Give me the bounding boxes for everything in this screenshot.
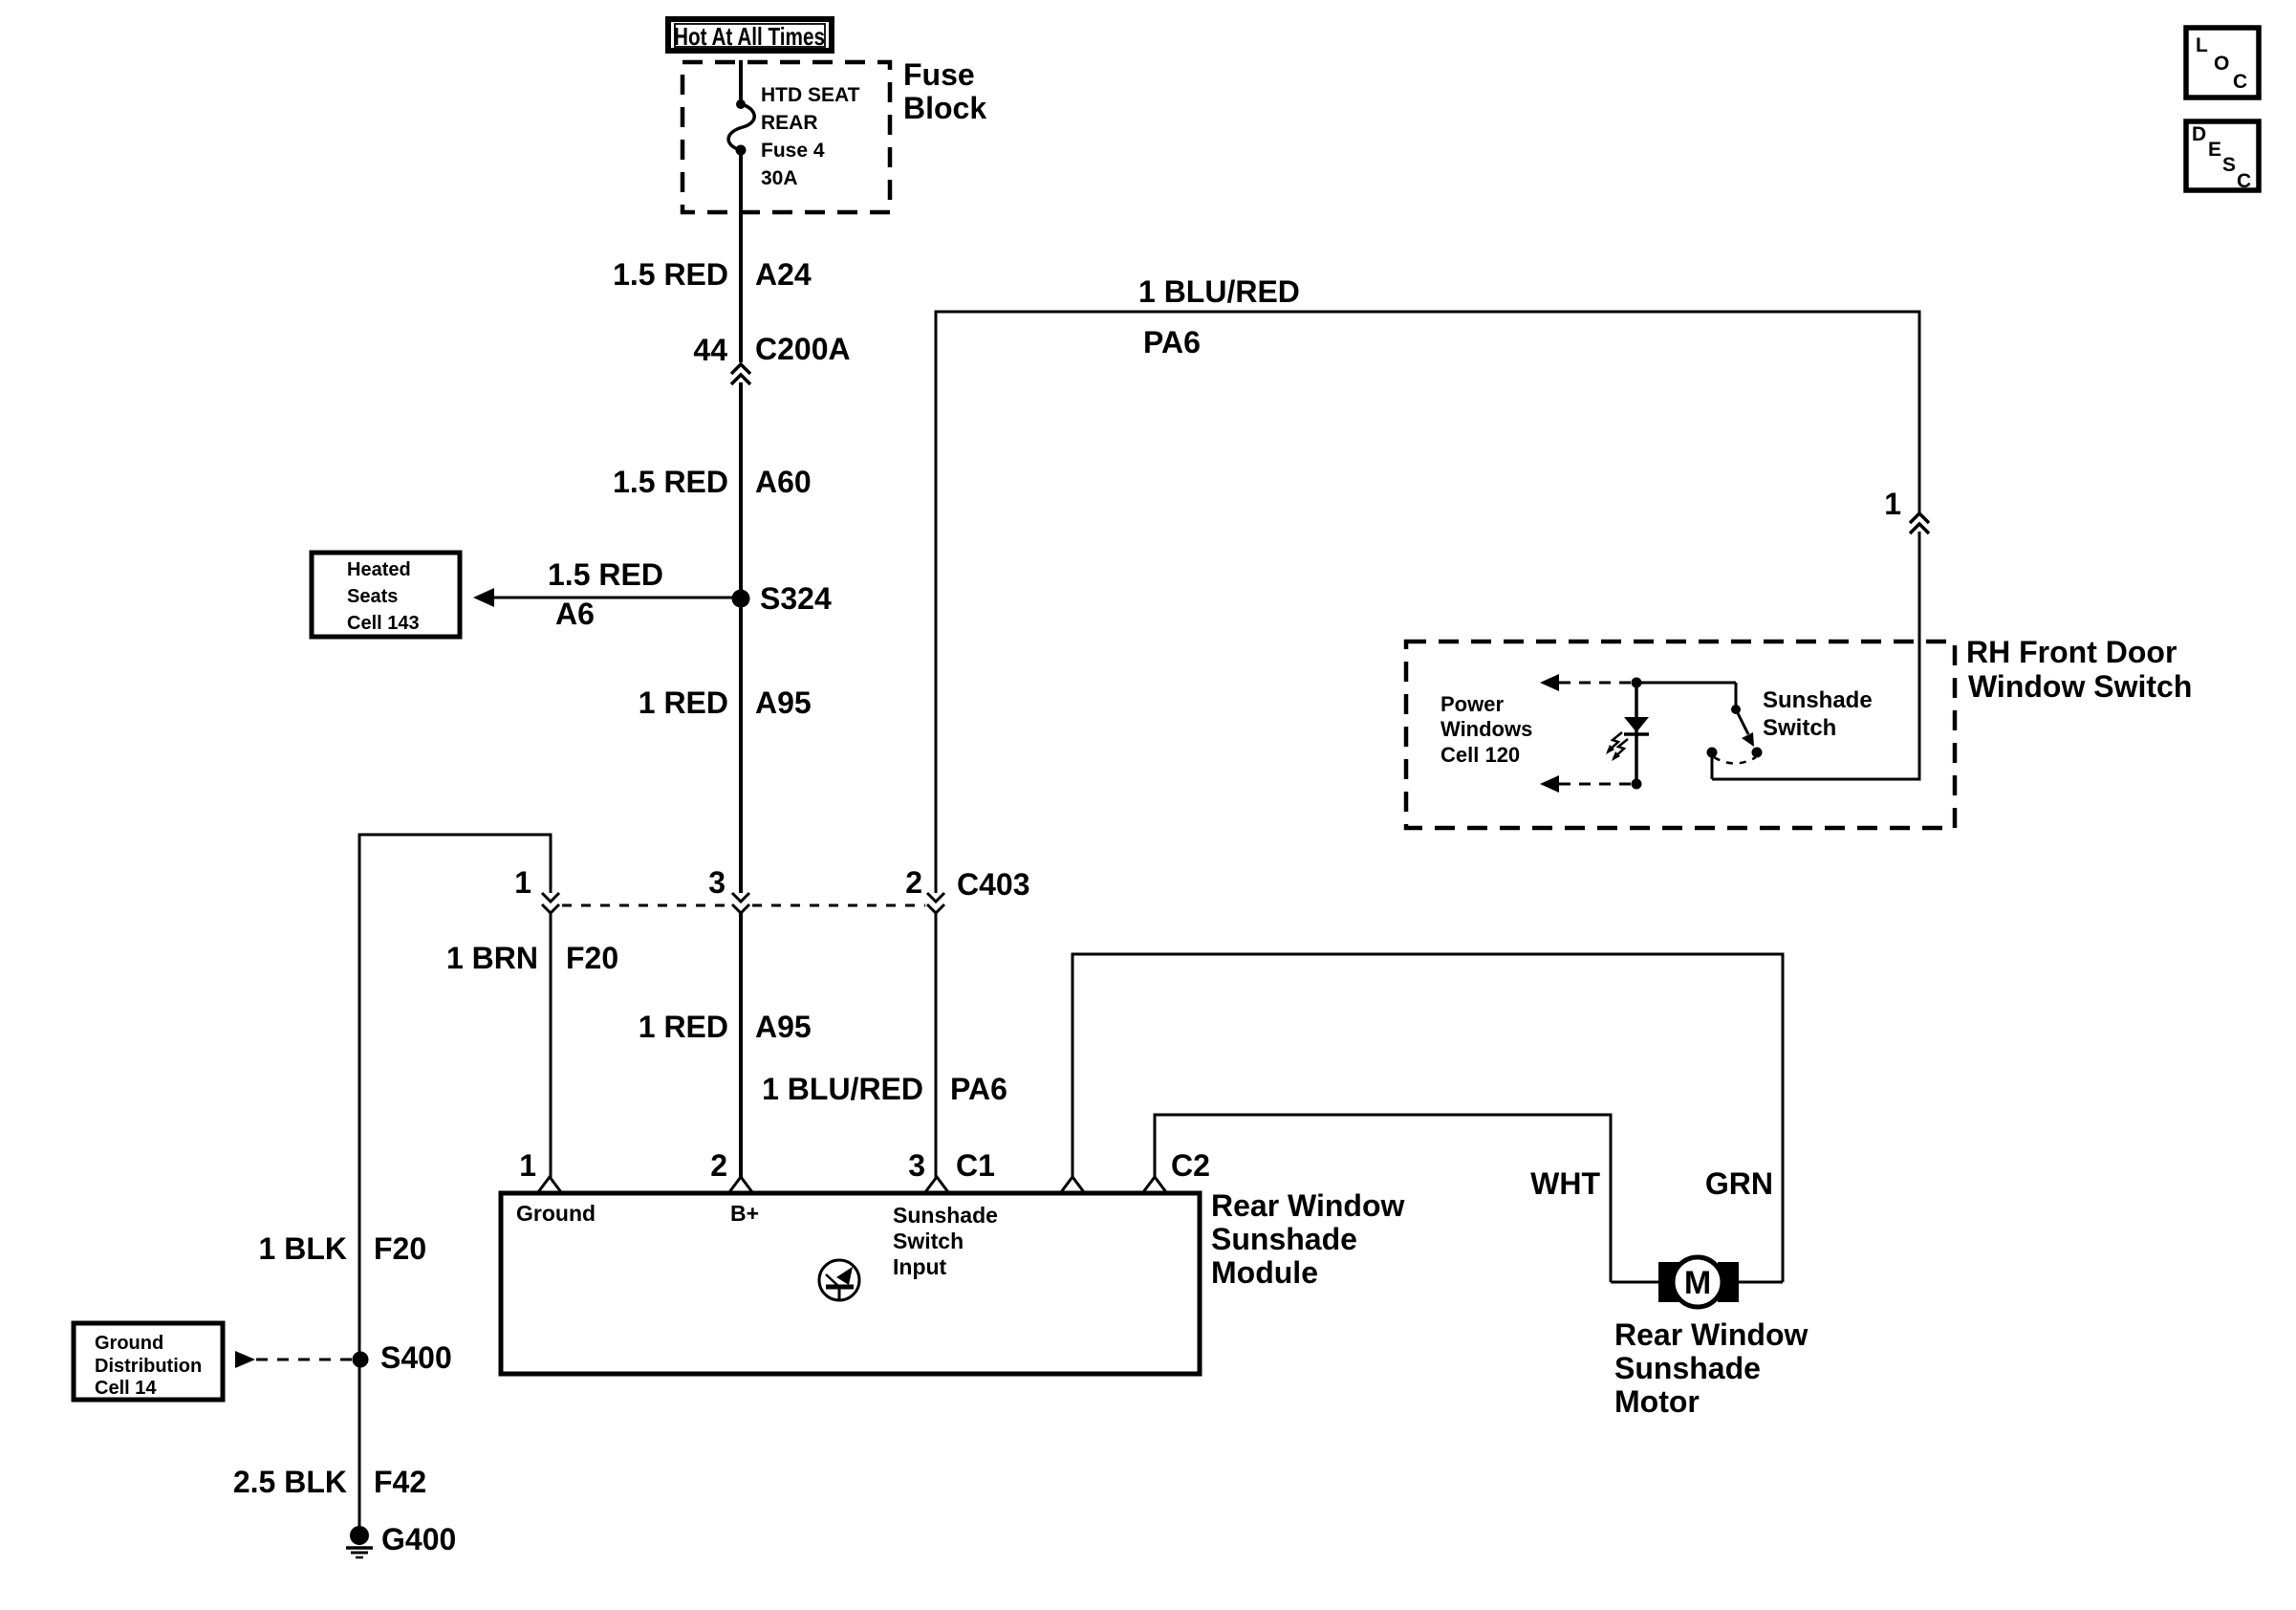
- svg-text:A24: A24: [755, 257, 812, 292]
- svg-text:1 BLU/RED: 1 BLU/RED: [1138, 274, 1300, 309]
- connector C403 pin 2: [927, 893, 944, 913]
- wire: left ground leg (F20 / F42): [358, 834, 361, 1537]
- wire F20: C403 pin 1 to module pin 1: [550, 913, 552, 1178]
- svg-text:Fuse: Fuse: [903, 57, 975, 92]
- svg-text:Sunshade: Sunshade: [1211, 1222, 1357, 1256]
- label 44 C200A: [693, 332, 850, 367]
- label 1.5 RED / A6: [548, 557, 663, 631]
- label 1.5 RED A24: [613, 257, 812, 292]
- svg-text:Heated: Heated: [347, 559, 411, 580]
- svg-text:GRN: GRN: [1705, 1166, 1773, 1201]
- ground G400: [346, 1526, 373, 1557]
- svg-text:1: 1: [514, 865, 531, 900]
- junction dot (LED bottom): [1632, 779, 1642, 790]
- svg-text:Cell 143: Cell 143: [347, 613, 420, 634]
- svg-text:S: S: [2222, 154, 2236, 176]
- module pin labels 1 2 3 C1 C2: [519, 1148, 1210, 1183]
- svg-text:Block: Block: [903, 91, 986, 125]
- wire F20 branch: top corner: [358, 834, 552, 894]
- svg-text:Rear Window: Rear Window: [1211, 1188, 1405, 1223]
- label Rear Window Sunshade Motor: [1614, 1317, 1809, 1419]
- wire A95: C403 pin 3 to module pin 2: [739, 913, 743, 1178]
- svg-text:Sunshade: Sunshade: [1614, 1351, 1761, 1385]
- module pin 2 chevron: [729, 1177, 752, 1192]
- fuse value text HTD SEAT REAR Fuse 4 30A: [761, 84, 860, 189]
- svg-text:30A: 30A: [761, 167, 798, 189]
- svg-text:1.5 RED: 1.5 RED: [613, 465, 728, 499]
- dashed arrow to power windows (bottom): [1540, 775, 1631, 793]
- svg-text:1.5 RED: 1.5 RED: [613, 257, 728, 292]
- svg-text:Motor: Motor: [1614, 1384, 1700, 1419]
- LED light arrows: [1606, 732, 1628, 761]
- label Rear Window Sunshade Module: [1211, 1188, 1405, 1290]
- label 1.5 RED A60: [613, 465, 812, 499]
- svg-text:2.5 BLK: 2.5 BLK: [233, 1465, 347, 1499]
- label 2.5 BLK F42: [233, 1465, 426, 1499]
- svg-text:1: 1: [519, 1148, 536, 1183]
- module pin 5 chevron: [1143, 1177, 1166, 1192]
- svg-text:RH Front Door: RH Front Door: [1966, 635, 2177, 669]
- box Ground Distribution Cell 14: [74, 1323, 223, 1400]
- svg-text:Sunshade: Sunshade: [1763, 687, 1873, 713]
- wire: hot feed into fuse block: [739, 60, 743, 104]
- svg-text:G400: G400: [381, 1522, 456, 1556]
- svg-text:S400: S400: [380, 1340, 452, 1375]
- module sunshade icon: [819, 1260, 859, 1300]
- svg-text:Ground: Ground: [516, 1201, 596, 1226]
- label Power Windows Cell 120: [1440, 692, 1532, 767]
- svg-text:44: 44: [693, 333, 727, 367]
- wire: connector into switch box down to bottom run: [1712, 532, 1921, 779]
- label 1 RED A95 (lower): [639, 1010, 812, 1044]
- svg-text:PA6: PA6: [950, 1072, 1007, 1106]
- svg-text:1: 1: [1884, 487, 1901, 521]
- svg-text:Fuse 4: Fuse 4: [761, 140, 825, 162]
- svg-text:D: D: [2192, 123, 2206, 145]
- label 1 BLK F20: [259, 1231, 427, 1266]
- label 1 BRN F20: [446, 941, 618, 975]
- wire PA6: C403 pin 2 to module pin 3: [935, 913, 938, 1178]
- wire GRN: module pin 4 to motor: [1072, 954, 1785, 1282]
- svg-text:Windows: Windows: [1440, 717, 1532, 741]
- label G400: [381, 1522, 456, 1556]
- svg-text:C: C: [2233, 71, 2247, 93]
- svg-text:O: O: [2214, 53, 2229, 75]
- label Sunshade Switch: [1763, 687, 1873, 741]
- dashed arrow to power windows (top): [1540, 674, 1631, 691]
- connector C200A (double chevron): [731, 364, 750, 384]
- svg-text:A60: A60: [755, 465, 812, 499]
- motor M (rear window sunshade motor): [1658, 1257, 1739, 1307]
- svg-text:E: E: [2208, 139, 2221, 161]
- svg-text:F20: F20: [374, 1231, 426, 1266]
- fuse HTD SEAT REAR Fuse 4 (30A): [728, 99, 754, 156]
- svg-text:F20: F20: [566, 941, 618, 975]
- module pin 4 chevron: [1061, 1177, 1084, 1192]
- svg-text:Rear Window: Rear Window: [1614, 1317, 1809, 1352]
- svg-text:3: 3: [908, 1148, 925, 1183]
- label 1 RED A95 (upper): [639, 685, 812, 720]
- svg-text:M: M: [1684, 1265, 1711, 1301]
- svg-text:1 RED: 1 RED: [639, 1010, 728, 1044]
- svg-text:B+: B+: [730, 1201, 759, 1226]
- svg-text:Seats: Seats: [347, 586, 398, 607]
- svg-text:Window Switch: Window Switch: [1968, 669, 2192, 704]
- wire PA6: top run from C403 pin 2 to window switch drop: [935, 312, 1921, 893]
- svg-text:C: C: [2237, 170, 2251, 192]
- module internal pin names: [516, 1201, 998, 1279]
- svg-text:PA6: PA6: [1143, 325, 1201, 359]
- label 1 BLU/RED PA6 (lower): [762, 1072, 1007, 1106]
- svg-text:A6: A6: [555, 597, 595, 631]
- wire A6 with arrow to Heated Seats: [473, 588, 741, 607]
- wire: right drop to window switch connector: [1918, 312, 1921, 514]
- svg-text:S324: S324: [760, 581, 832, 616]
- svg-text:F42: F42: [374, 1465, 426, 1499]
- label WHT: [1530, 1166, 1600, 1201]
- module pin 1 chevron: [538, 1177, 561, 1192]
- svg-text:WHT: WHT: [1530, 1166, 1600, 1201]
- svg-text:1 RED: 1 RED: [639, 685, 728, 720]
- label RH Front Door Window Switch: [1966, 635, 2192, 704]
- connector C403 pin 3: [732, 893, 749, 913]
- svg-text:C200A: C200A: [755, 332, 851, 366]
- svg-text:L: L: [2196, 34, 2208, 56]
- box Heated Seats Cell 143: [312, 553, 460, 637]
- dashed connector line C403: [562, 904, 925, 907]
- svg-text:Cell 14: Cell 14: [95, 1378, 157, 1399]
- svg-text:REAR: REAR: [761, 112, 818, 134]
- svg-text:C1: C1: [956, 1148, 995, 1183]
- label GRN: [1705, 1166, 1773, 1201]
- svg-text:C2: C2: [1171, 1148, 1210, 1183]
- wire WHT: module pin 5 (C2) to motor: [1154, 1115, 1660, 1282]
- svg-text:1.5 RED: 1.5 RED: [548, 557, 663, 592]
- svg-text:A95: A95: [755, 1010, 812, 1044]
- svg-text:1 BRN: 1 BRN: [446, 941, 538, 975]
- svg-text:Switch: Switch: [893, 1229, 964, 1253]
- label 1 BLU/RED / PA6 (top run): [1138, 274, 1300, 359]
- LED indicator diode: [1624, 683, 1649, 784]
- svg-text:1 BLU/RED: 1 BLU/RED: [762, 1072, 923, 1106]
- svg-text:A95: A95: [755, 685, 812, 720]
- svg-text:Input: Input: [893, 1254, 947, 1279]
- splice S400: [353, 1352, 369, 1368]
- connector C403 pin 1: [542, 893, 559, 913]
- label S324: [760, 581, 832, 616]
- svg-text:3: 3: [708, 865, 726, 900]
- label S400: [380, 1340, 452, 1375]
- wire A24: fuse to connector C200A: [739, 150, 743, 362]
- svg-text:Cell 120: Cell 120: [1440, 743, 1520, 767]
- fuse block box (dashed): [682, 62, 890, 212]
- label pin 1 (window switch connector): [1884, 487, 1901, 521]
- svg-text:C403: C403: [957, 867, 1030, 902]
- svg-text:Module: Module: [1211, 1255, 1318, 1290]
- svg-text:Power: Power: [1440, 692, 1504, 716]
- svg-text:2: 2: [905, 865, 922, 900]
- svg-text:Distribution: Distribution: [95, 1356, 202, 1377]
- DESC reference box: [2186, 121, 2259, 192]
- junction dot (LED top): [1632, 678, 1642, 688]
- RH front door window switch box (dashed): [1406, 642, 1955, 828]
- wire A60: C200A to splice S324: [739, 382, 743, 598]
- rear window sunshade module box: [501, 1193, 1200, 1374]
- label box "Hot At All Times": [668, 19, 832, 51]
- wire A95: S324 to connector C403 pin 3: [739, 598, 743, 893]
- label "Fuse Block": [903, 57, 986, 125]
- sunshade switch contacts and arm: [1636, 683, 1763, 764]
- svg-text:Ground: Ground: [95, 1333, 163, 1354]
- svg-text:Switch: Switch: [1763, 715, 1836, 741]
- dashed wire with arrow to ground distribution: [235, 1351, 352, 1368]
- labels C403 row: [514, 865, 1029, 902]
- svg-text:Hot At All Times: Hot At All Times: [674, 22, 825, 51]
- splice S324: [732, 590, 750, 608]
- connector pin 1 (double chevron): [1910, 513, 1929, 533]
- svg-text:HTD SEAT: HTD SEAT: [761, 84, 860, 106]
- svg-text:1 BLK: 1 BLK: [259, 1231, 347, 1266]
- module pin 3 chevron: [925, 1177, 948, 1192]
- svg-text:2: 2: [710, 1148, 727, 1183]
- svg-text:Sunshade: Sunshade: [893, 1203, 998, 1228]
- LOC reference box: [2186, 28, 2259, 98]
